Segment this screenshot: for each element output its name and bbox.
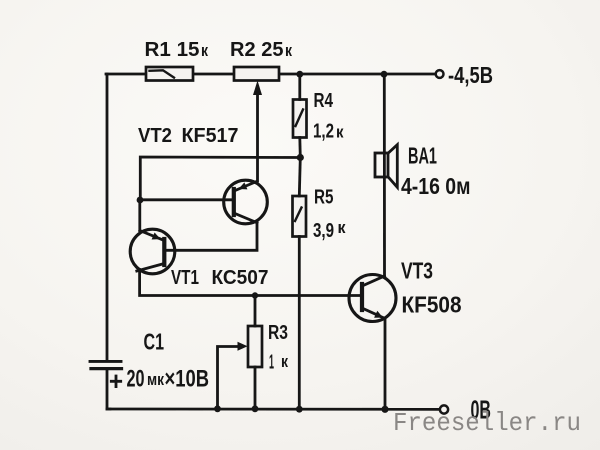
junction node R4 top rail — [296, 71, 303, 78]
resistor R1 — [146, 67, 193, 81]
VT1 collector diagonal — [137, 264, 165, 272]
R2 wiper arrow line — [256, 91, 259, 181]
wire R3 top lead — [254, 296, 257, 327]
VT2 emitter arrowhead — [239, 182, 248, 189]
speaker BA1 rectangle — [375, 153, 388, 177]
wire VT2 collector to VT1 base — [164, 223, 257, 251]
VT3 emitter arrowhead — [374, 311, 383, 318]
svg-text:3,9: 3,9 — [313, 219, 334, 242]
wire R3 bottom lead — [254, 367, 257, 409]
svg-text:1: 1 — [269, 351, 274, 374]
junction node R3 top — [252, 292, 258, 298]
wire R4 top lead — [298, 74, 301, 100]
transistor VT3 circle — [349, 275, 396, 322]
svg-text:Freeseller.ru: Freeseller.ru — [393, 408, 581, 438]
resistor R3 — [248, 326, 262, 367]
wire VT1 collector down and across to VT3 base — [140, 270, 362, 296]
svg-text:к: к — [281, 352, 288, 371]
terminal -4.5V circle — [436, 70, 444, 78]
svg-text:к: к — [285, 41, 292, 60]
svg-text:20: 20 — [127, 366, 145, 393]
svg-text:КF517: КF517 — [182, 124, 239, 147]
resistor R4 — [293, 100, 307, 138]
svg-text:VT3: VT3 — [401, 258, 433, 284]
wire left rail — [106, 74, 109, 360]
VT3 collector diagonal — [362, 276, 385, 286]
transistor VT1 circle — [130, 229, 175, 274]
C1 plus sign — [111, 376, 120, 387]
wire R4 bottom lead — [298, 138, 301, 158]
svg-text:1,2: 1,2 — [313, 120, 334, 143]
capacitor C1 top plate — [90, 360, 121, 363]
wire bottom rail — [107, 408, 440, 411]
svg-text:-4,5В: -4,5В — [448, 62, 493, 88]
wire C1 bottom to bottom rail corner — [107, 370, 110, 409]
wire R5 bottom lead to bottom rail — [298, 237, 301, 410]
VT1 base bar — [162, 239, 166, 265]
junction node R5 bottom — [296, 406, 303, 413]
transistor VT2 circle — [224, 180, 268, 224]
R3 wiper arrowhead — [238, 342, 248, 351]
R1 power mark — [150, 70, 175, 77]
svg-text:КF508: КF508 — [402, 292, 462, 318]
svg-text:к: к — [336, 123, 344, 142]
VT1 emitter diagonal — [140, 231, 165, 241]
junction node R3 wiper bottom — [214, 405, 221, 412]
capacitor C1 bottom plate — [91, 367, 122, 370]
junction node R4/R5 divider — [297, 154, 304, 161]
wire R5 top lead — [299, 158, 300, 197]
junction node VT1 emitter / VT2 base — [137, 197, 144, 204]
R3 wiper line — [218, 347, 240, 410]
terminal 0V circle — [440, 405, 448, 413]
junction node R3 bottom — [252, 405, 259, 412]
svg-text:к: к — [338, 218, 346, 237]
svg-text:R1 15: R1 15 — [145, 38, 200, 61]
svg-text:R4: R4 — [314, 89, 334, 112]
VT3 emitter diagonal — [362, 308, 385, 319]
svg-text:VT2: VT2 — [138, 124, 172, 147]
junction node VT3 emitter bottom — [381, 406, 388, 413]
svg-text:R3: R3 — [268, 321, 288, 344]
wire between R1 and R2 — [193, 73, 234, 76]
VT1 emitter arrowhead — [152, 233, 161, 240]
svg-text:КС507: КС507 — [212, 266, 269, 289]
R5 power mark — [295, 208, 302, 222]
R4 power mark — [296, 110, 304, 127]
wire top rail left segment — [106, 73, 146, 76]
R2 wiper arrowhead — [253, 81, 262, 96]
resistor R5 — [293, 196, 307, 237]
wire R2 to -4.5V terminal — [279, 73, 436, 76]
svg-text:R5: R5 — [314, 186, 334, 209]
svg-text:мк: мк — [147, 370, 164, 389]
wire VT2 base lead — [140, 198, 234, 201]
svg-text:VT1: VT1 — [171, 266, 199, 289]
VT3 base bar — [360, 284, 364, 310]
svg-text:к: к — [201, 41, 208, 60]
wire VT1 emitter net: horizontal from corner to R4/R5 node — [140, 157, 300, 199]
speaker BA1 horn — [388, 145, 397, 188]
VT2 base bar — [232, 189, 236, 215]
svg-text:R2 25: R2 25 — [230, 38, 284, 61]
speaker BA1 wire through — [383, 74, 386, 276]
svg-text:С1: С1 — [144, 329, 165, 355]
wire VT3 emitter to bottom rail — [384, 319, 387, 410]
VT2 collector diagonal — [234, 213, 257, 223]
svg-text:×10В: ×10В — [165, 366, 210, 393]
junction node speaker top rail — [381, 71, 388, 78]
svg-text:4-16 0м: 4-16 0м — [401, 173, 471, 199]
resistor R2 — [234, 67, 279, 81]
wire VT1 emitter lead vertical — [138, 200, 141, 231]
svg-text:BA1: BA1 — [408, 143, 437, 169]
VT2 emitter diagonal — [234, 181, 257, 191]
